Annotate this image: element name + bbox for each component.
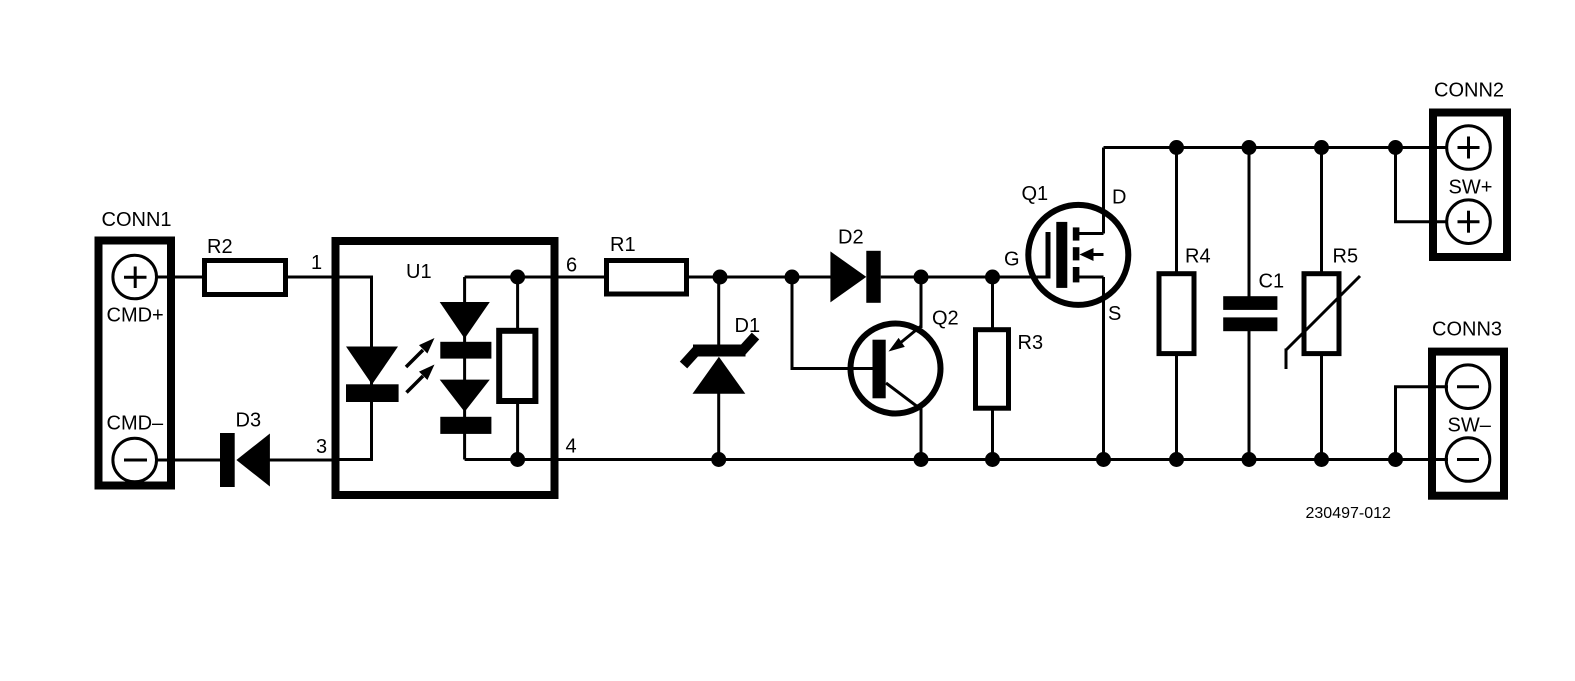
svg-text:R3: R3 (1018, 332, 1044, 354)
MOSFET Q1 (1022, 148, 1129, 460)
svg-text:CONN1: CONN1 (102, 209, 172, 231)
svg-text:CMD–: CMD– (107, 413, 165, 435)
svg-text:C1: C1 (1259, 271, 1285, 293)
U1 bottom internal wire to pin 4 (465, 458, 553, 461)
svg-text:4: 4 (566, 436, 577, 458)
bottom rail wire (556, 458, 1448, 461)
wire pin6 to R1 (557, 276, 605, 279)
junction dot top rail R5 (1314, 140, 1329, 155)
junction node R1/D1 (713, 270, 728, 285)
svg-text:D: D (1112, 187, 1126, 209)
svg-text:CONN3: CONN3 (1432, 319, 1502, 341)
wire R2 to U1 pin 1 (286, 276, 333, 279)
wire CONN2 lower terminal link (1396, 148, 1449, 222)
svg-text:SW+: SW+ (1449, 177, 1493, 199)
junction node Q2 emitter (914, 270, 929, 285)
junction dot top rail CONN2 (1388, 140, 1403, 155)
wire D2 to MOSFET gate (881, 276, 1048, 279)
wire R1 to D2 (687, 276, 832, 279)
resistor R4 (1159, 148, 1211, 460)
junction node Q2 base branch (785, 270, 800, 285)
resistor R2 (205, 236, 286, 295)
wire CONN3 upper terminal link (1396, 387, 1449, 460)
Q1 source lead (1102, 277, 1105, 460)
transistor Q2 (792, 277, 959, 460)
svg-text:230497-012: 230497-012 (1306, 505, 1392, 522)
junction node R3 top / gate (985, 270, 1000, 285)
Q1 gate electrode (1046, 232, 1051, 279)
CONN2 terminal SW+ top (1447, 126, 1491, 170)
svg-text:G: G (1004, 249, 1020, 271)
CONN3 terminal SW- bottom (1446, 438, 1490, 482)
Q1 body arrow (1080, 248, 1094, 261)
junction dot bottom rail CONN3 (1388, 452, 1403, 467)
svg-text:D3: D3 (236, 410, 262, 432)
zener diode D1 (684, 277, 761, 460)
opto-coupler U1 box (336, 241, 555, 495)
svg-text:6: 6 (566, 255, 577, 277)
photodiode PD2 (440, 380, 492, 434)
junction dot bottom rail R4 (1169, 452, 1184, 467)
junction dot U1 top (510, 270, 525, 285)
Q1 channel stub middle (body) (1073, 247, 1080, 260)
photodiode stack wire (463, 277, 466, 460)
Q1 gate plate bar (1056, 222, 1067, 288)
resistor R1 (607, 234, 687, 294)
junction dot bottom rail C1 (1242, 452, 1257, 467)
LED in U1 (346, 347, 399, 403)
svg-text:R2: R2 (207, 236, 233, 258)
top rail wire (1104, 146, 1449, 149)
svg-text:R5: R5 (1333, 246, 1359, 268)
CONN2 terminal SW+ bottom (1447, 200, 1491, 244)
svg-text:R4: R4 (1185, 246, 1211, 268)
junction dot bottom rail D1 (711, 452, 726, 467)
connector CONN2 box (1433, 113, 1507, 258)
wire CMD+ to R2 (156, 276, 203, 279)
svg-text:3: 3 (316, 436, 327, 458)
junction dot bottom rail Q1 source (1096, 452, 1111, 467)
U1 internal LED branch wire (pin1 to pin3) (337, 277, 372, 460)
Q1 source connection (1077, 276, 1104, 279)
Q1 channel stub bottom (source) (1073, 267, 1080, 282)
junction dot U1 bottom (510, 452, 525, 467)
svg-text:1: 1 (311, 252, 322, 274)
U1 top internal wire to pin 6 (465, 276, 553, 279)
diode D2 (830, 227, 880, 303)
svg-text:R1: R1 (610, 234, 636, 256)
resistor R3 (976, 277, 1044, 460)
light emission arrows (406, 338, 435, 393)
junction dot bottom rail Q2 collector (914, 452, 929, 467)
photodiode PD1 (440, 302, 492, 359)
capacitor C1 (1223, 148, 1284, 460)
svg-text:Q2: Q2 (932, 308, 959, 330)
svg-text:D1: D1 (735, 315, 761, 337)
CONN1 terminal CMD- (107, 413, 165, 482)
CONN3 terminal SW- top (1446, 365, 1490, 409)
Q1 channel stub top (drain) (1073, 227, 1080, 240)
connector CONN1 box (99, 241, 172, 486)
junction dot bottom rail R5 (1314, 452, 1329, 467)
svg-text:S: S (1108, 303, 1121, 325)
diode D3 (220, 410, 270, 488)
connector CONN3 box (1432, 352, 1504, 496)
svg-text:U1: U1 (406, 261, 432, 283)
wire CMD- to D3 (156, 459, 221, 462)
junction dot top rail R4 (1169, 140, 1184, 155)
Q1 drain lead (1102, 148, 1105, 234)
wire D3 to U1 pin 3 (268, 459, 332, 462)
junction dot top rail C1 (1242, 140, 1257, 155)
CONN1 terminal CMD+ (107, 255, 164, 326)
svg-text:D2: D2 (838, 227, 864, 249)
svg-text:CONN2: CONN2 (1434, 80, 1504, 102)
svg-text:Q1: Q1 (1022, 183, 1049, 205)
varistor R5 (1286, 148, 1360, 460)
U1 internal resistor (499, 277, 535, 460)
svg-text:CMD+: CMD+ (107, 305, 164, 327)
svg-text:SW–: SW– (1448, 415, 1492, 437)
Q1 drain connection (1077, 232, 1104, 235)
junction dot bottom rail R3 (985, 452, 1000, 467)
